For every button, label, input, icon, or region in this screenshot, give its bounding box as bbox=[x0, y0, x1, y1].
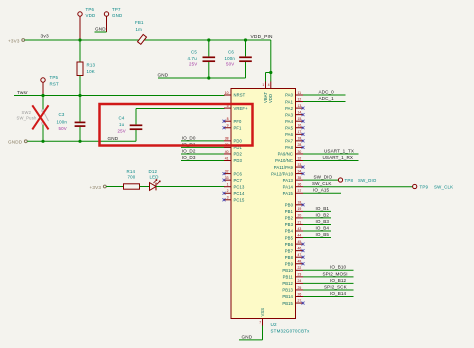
svg-text:VREF+: VREF+ bbox=[234, 106, 249, 111]
svg-text:45: 45 bbox=[298, 240, 302, 244]
pin PA10/NC (32) U2 right bbox=[275, 155, 358, 163]
svg-text:USART_1_RX: USART_1_RX bbox=[323, 155, 354, 160]
svg-text:12: 12 bbox=[298, 97, 302, 101]
pin PB14 (26) U2 right bbox=[282, 291, 353, 299]
svg-text:PB14: PB14 bbox=[282, 294, 293, 299]
svg-text:SPI2_SCK: SPI2_SCK bbox=[324, 284, 348, 289]
pin PC13 (1) U2 left bbox=[224, 183, 245, 190]
svg-text:R14: R14 bbox=[127, 169, 136, 174]
junction C5 top bbox=[207, 38, 210, 41]
svg-text:50V: 50V bbox=[59, 126, 67, 131]
svg-text:46: 46 bbox=[298, 246, 302, 250]
power GNDD (left) bbox=[8, 140, 27, 145]
svg-text:IO_B5: IO_B5 bbox=[316, 232, 330, 237]
test point TP5 bbox=[41, 75, 59, 96]
pin PB12 (24) U2 right bbox=[282, 278, 353, 286]
svg-text:SW2: SW2 bbox=[22, 110, 32, 115]
svg-text:36: 36 bbox=[298, 183, 302, 187]
junction Twsr / R13 / C3 bbox=[78, 94, 81, 97]
svg-text:+3V3: +3V3 bbox=[8, 38, 20, 43]
resistor R14 bbox=[106, 169, 139, 189]
svg-text:2: 2 bbox=[227, 189, 229, 193]
svg-text:+3V3: +3V3 bbox=[90, 185, 102, 190]
svg-text:VDD: VDD bbox=[268, 94, 273, 103]
pin PB4 (43) U2 right bbox=[285, 225, 331, 233]
mcu U2 body bbox=[231, 89, 296, 319]
svg-text:27: 27 bbox=[298, 299, 302, 303]
pin PB15 (27) U2 right bbox=[282, 299, 304, 306]
svg-text:SW_DIO: SW_DIO bbox=[358, 178, 377, 183]
pin PA0 (11) U2 right bbox=[285, 89, 345, 97]
svg-text:35: 35 bbox=[298, 176, 302, 180]
svg-text:PC15: PC15 bbox=[234, 198, 245, 203]
svg-text:GND: GND bbox=[95, 27, 106, 32]
svg-text:USART_1_TX: USART_1_TX bbox=[324, 148, 354, 153]
svg-text:PB11: PB11 bbox=[283, 275, 294, 280]
pin PC15 (3) U2 left bbox=[223, 196, 245, 203]
svg-text:SW_Push: SW_Push bbox=[17, 115, 37, 120]
svg-text:50V: 50V bbox=[226, 61, 234, 66]
svg-text:PA9/NC: PA9/NC bbox=[278, 152, 293, 157]
wire Twsr / NRST bbox=[14, 95, 225, 97]
pin PA15 (37) U2 right bbox=[283, 188, 341, 196]
pin PB3 (21) U2 right bbox=[285, 219, 331, 227]
pin PD1 (39) U2 left bbox=[181, 142, 243, 150]
svg-text:RST: RST bbox=[50, 82, 59, 87]
svg-text:PA4: PA4 bbox=[285, 119, 293, 124]
pin PA9/NC (30) U2 right bbox=[278, 148, 359, 156]
wire VSS to GND bbox=[239, 326, 263, 340]
pin PD3 (41) U2 left bbox=[181, 155, 243, 163]
pin PF0 (8) U2 left bbox=[223, 117, 243, 124]
svg-text:100n: 100n bbox=[225, 56, 236, 61]
power +3V3 (top left) bbox=[8, 38, 25, 43]
node 3v3 label bbox=[41, 34, 49, 40]
svg-text:20: 20 bbox=[298, 214, 302, 218]
svg-text:GNDD: GNDD bbox=[8, 140, 23, 145]
svg-text:18: 18 bbox=[298, 201, 302, 205]
pin NRST (10) U2 left bbox=[224, 91, 246, 98]
svg-text:NRST: NRST bbox=[234, 93, 246, 98]
wire GNDD rail bbox=[27, 140, 136, 142]
svg-text:PB4: PB4 bbox=[285, 229, 294, 234]
svg-text:D12: D12 bbox=[149, 169, 158, 174]
svg-text:PC6: PC6 bbox=[234, 171, 243, 176]
pin PB5 (44) U2 right bbox=[285, 232, 331, 240]
svg-text:U2: U2 bbox=[271, 322, 278, 327]
pin PC6 (32) U2 left bbox=[223, 169, 243, 176]
pin PB13 (25) U2 right bbox=[282, 284, 353, 292]
svg-text:GND: GND bbox=[242, 335, 253, 340]
node VDD_PIN label bbox=[251, 34, 274, 40]
pin PB6 (45) U2 right bbox=[285, 240, 305, 247]
svg-text:25V: 25V bbox=[118, 129, 126, 134]
pin PA14 (36) U2 right bbox=[283, 181, 413, 189]
pin PA13 (35) U2 right bbox=[283, 175, 339, 183]
svg-text:PC14: PC14 bbox=[234, 191, 245, 196]
svg-text:7: 7 bbox=[259, 321, 261, 325]
svg-text:PB12: PB12 bbox=[282, 281, 293, 286]
svg-text:PA10/NC: PA10/NC bbox=[275, 158, 293, 163]
svg-text:VBAT: VBAT bbox=[263, 92, 268, 103]
svg-text:C6: C6 bbox=[228, 50, 234, 55]
svg-text:PF0: PF0 bbox=[234, 119, 243, 124]
svg-text:34: 34 bbox=[298, 169, 302, 173]
svg-text:IO_D3: IO_D3 bbox=[182, 155, 196, 160]
svg-text:1u: 1u bbox=[119, 122, 125, 127]
svg-text:19: 19 bbox=[298, 207, 302, 211]
svg-text:SW_CLK: SW_CLK bbox=[312, 181, 332, 186]
junction GNDD / SW2 bbox=[41, 140, 44, 143]
svg-text:4: 4 bbox=[268, 83, 270, 87]
svg-text:30: 30 bbox=[298, 150, 302, 154]
capacitor C4 bbox=[118, 109, 225, 142]
svg-text:GND: GND bbox=[112, 13, 122, 18]
junction Twsr / TP5 bbox=[41, 94, 44, 97]
svg-text:PB5: PB5 bbox=[285, 235, 294, 240]
pin VDD (4) U2 top bbox=[268, 82, 273, 104]
pin PC7 (33) U2 left bbox=[223, 176, 243, 183]
junction C6 top bbox=[244, 38, 247, 41]
svg-text:PB6: PB6 bbox=[285, 242, 294, 247]
wire 3v3 rail bbox=[25, 39, 271, 41]
svg-text:37: 37 bbox=[298, 189, 302, 193]
highlight rectangle (red annotation) bbox=[100, 104, 253, 146]
pin PA5 (16) U2 right bbox=[285, 124, 304, 131]
svg-text:IO_B2: IO_B2 bbox=[316, 212, 330, 217]
svg-text:3v3: 3v3 bbox=[41, 34, 49, 40]
svg-text:PD2: PD2 bbox=[234, 152, 243, 157]
svg-text:26: 26 bbox=[298, 292, 302, 296]
pin PB10 (22) U2 right bbox=[282, 265, 353, 273]
svg-text:IO_B4: IO_B4 bbox=[316, 225, 330, 230]
svg-text:SW_DIO: SW_DIO bbox=[314, 175, 333, 180]
svg-text:24: 24 bbox=[298, 279, 302, 283]
junction VBAT/VDD bbox=[269, 71, 272, 74]
svg-text:C4: C4 bbox=[119, 116, 125, 121]
svg-text:FB1: FB1 bbox=[135, 20, 144, 25]
ground GND below U2 bbox=[242, 335, 253, 340]
pin PA4 (15) U2 right bbox=[285, 117, 304, 124]
capacitor C6 bbox=[225, 40, 252, 78]
svg-text:44: 44 bbox=[298, 233, 302, 237]
svg-text:PA3: PA3 bbox=[285, 112, 293, 117]
junction 3v3 / TP6 / R13 bbox=[78, 38, 81, 41]
svg-text:1m: 1m bbox=[136, 27, 143, 32]
svg-text:PD3: PD3 bbox=[234, 158, 243, 163]
svg-text:PB1: PB1 bbox=[285, 209, 294, 214]
svg-text:TP6: TP6 bbox=[86, 7, 95, 12]
svg-text:15: 15 bbox=[298, 117, 302, 121]
svg-text:14: 14 bbox=[298, 110, 302, 114]
svg-text:IO_B3: IO_B3 bbox=[316, 219, 330, 224]
svg-text:43: 43 bbox=[298, 227, 302, 231]
svg-text:STM32G070CBTx: STM32G070CBTx bbox=[271, 329, 311, 334]
svg-text:PB13: PB13 bbox=[282, 288, 293, 293]
ground GND at TP7 bbox=[95, 27, 107, 32]
svg-text:ADC_1: ADC_1 bbox=[319, 96, 335, 101]
ground GND under C5/C6 bbox=[158, 72, 246, 78]
test point TP9 SW_CLK bbox=[413, 184, 454, 189]
svg-text:3: 3 bbox=[227, 196, 229, 200]
pin PA1 (12) U2 right bbox=[285, 96, 345, 104]
svg-text:48: 48 bbox=[298, 260, 302, 264]
svg-text:IO_D0: IO_D0 bbox=[182, 135, 196, 140]
test point TP7 bbox=[104, 7, 122, 32]
svg-text:GND: GND bbox=[108, 136, 119, 141]
LED D12 bbox=[140, 169, 225, 191]
capacitor C5 bbox=[188, 40, 216, 78]
svg-text:8: 8 bbox=[227, 117, 229, 121]
svg-text:40: 40 bbox=[225, 150, 229, 154]
pin PA6 (17) U2 right bbox=[285, 130, 304, 137]
pin VBAT (1) U2 top bbox=[262, 82, 267, 104]
svg-text:PB10: PB10 bbox=[282, 268, 293, 273]
svg-text:PD0: PD0 bbox=[234, 139, 243, 144]
svg-text:PA8: PA8 bbox=[285, 145, 293, 150]
svg-text:PB2: PB2 bbox=[285, 216, 294, 221]
svg-text:PF1: PF1 bbox=[234, 125, 243, 130]
svg-text:LED: LED bbox=[150, 174, 159, 179]
node Twsr label bbox=[17, 90, 28, 96]
svg-text:47: 47 bbox=[298, 253, 302, 257]
svg-text:IO_B12: IO_B12 bbox=[330, 278, 347, 283]
svg-text:TP5: TP5 bbox=[50, 75, 59, 80]
svg-text:4.7u: 4.7u bbox=[188, 56, 198, 61]
svg-text:PB15: PB15 bbox=[282, 301, 293, 306]
svg-text:IO_A15: IO_A15 bbox=[313, 188, 330, 193]
svg-text:TP8: TP8 bbox=[345, 178, 354, 183]
resistor R13 bbox=[77, 40, 96, 96]
svg-text:GND: GND bbox=[158, 72, 169, 77]
wire VDD_PIN down to U2 bbox=[266, 40, 271, 82]
svg-text:PC13: PC13 bbox=[234, 184, 245, 189]
svg-text:PC7: PC7 bbox=[234, 178, 243, 183]
svg-text:41: 41 bbox=[225, 156, 229, 160]
svg-text:22: 22 bbox=[298, 266, 302, 270]
power +3V3 at R14 bbox=[90, 185, 107, 190]
DNP cross on SW2 bbox=[32, 105, 48, 129]
pin PA3 (14) U2 right bbox=[285, 110, 304, 117]
svg-text:PA13: PA13 bbox=[283, 178, 294, 183]
pin PB1 (19) U2 right bbox=[285, 206, 331, 214]
svg-text:25V: 25V bbox=[189, 61, 197, 66]
svg-text:33: 33 bbox=[298, 163, 302, 167]
svg-text:23: 23 bbox=[298, 273, 302, 277]
svg-text:PA11/PA9: PA11/PA9 bbox=[274, 165, 294, 170]
svg-text:16: 16 bbox=[298, 124, 302, 128]
svg-text:9: 9 bbox=[227, 124, 229, 128]
svg-text:PA15: PA15 bbox=[283, 191, 294, 196]
pin PB9 (48) U2 right bbox=[285, 260, 305, 267]
svg-text:SPI2_MOSI: SPI2_MOSI bbox=[323, 271, 348, 276]
pin PA7 (18) U2 right bbox=[285, 137, 304, 144]
junction C5 bottom bbox=[207, 76, 210, 79]
test point TP8 SW_DIO bbox=[338, 178, 377, 183]
svg-text:PA12/PA10: PA12/PA10 bbox=[271, 171, 294, 176]
svg-text:10: 10 bbox=[225, 91, 229, 95]
svg-text:100n: 100n bbox=[57, 119, 68, 124]
pin VREF+ (5) U2 left bbox=[224, 104, 248, 111]
pin PD2 (40) U2 left bbox=[181, 148, 243, 156]
pin PD0 (38) U2 left bbox=[181, 135, 243, 143]
pin PB7 (46) U2 right bbox=[285, 246, 305, 253]
svg-text:28: 28 bbox=[298, 143, 302, 147]
svg-text:PA2: PA2 bbox=[285, 106, 293, 111]
switch SW2 SW_Push (DNP, crossed out) bbox=[17, 96, 49, 142]
svg-text:IO_D2: IO_D2 bbox=[182, 148, 196, 153]
svg-text:IO_B1: IO_B1 bbox=[316, 206, 330, 211]
svg-text:1: 1 bbox=[227, 183, 229, 187]
svg-text:C3: C3 bbox=[59, 112, 65, 117]
svg-text:PB3: PB3 bbox=[285, 222, 294, 227]
svg-text:IO_B10: IO_B10 bbox=[330, 265, 347, 270]
svg-text:PA7: PA7 bbox=[285, 139, 293, 144]
svg-text:PB8: PB8 bbox=[285, 255, 294, 260]
svg-text:PA0: PA0 bbox=[285, 93, 293, 98]
svg-text:VSS: VSS bbox=[260, 308, 265, 317]
pin PB0 (18) U2 right bbox=[285, 201, 305, 208]
svg-text:PA5: PA5 bbox=[285, 125, 293, 130]
mcu U2 reference bbox=[271, 322, 311, 333]
svg-text:10K: 10K bbox=[87, 69, 95, 74]
svg-text:VDD_PIN: VDD_PIN bbox=[251, 34, 274, 40]
svg-text:TP7: TP7 bbox=[112, 7, 121, 12]
svg-text:17: 17 bbox=[298, 130, 302, 134]
svg-text:IO_B14: IO_B14 bbox=[330, 291, 347, 296]
svg-text:PB7: PB7 bbox=[285, 248, 294, 253]
pin PF1 (9) U2 left bbox=[223, 124, 243, 131]
svg-text:PB9: PB9 bbox=[285, 261, 294, 266]
pin PA11/PA9 (33) U2 right bbox=[274, 163, 305, 170]
junction GNDD / C3 bbox=[78, 140, 81, 143]
svg-text:25: 25 bbox=[298, 286, 302, 290]
ferrite bead FB1 bbox=[135, 20, 146, 44]
svg-text:SW_CLK: SW_CLK bbox=[434, 184, 453, 189]
pin PA12/PA10 (34) U2 right bbox=[271, 169, 304, 176]
capacitor C3 bbox=[57, 96, 86, 142]
svg-text:13: 13 bbox=[298, 104, 302, 108]
pin PB2 (20) U2 right bbox=[285, 212, 331, 220]
ground GND at C4 bbox=[108, 136, 119, 141]
svg-text:VDD: VDD bbox=[86, 13, 96, 18]
svg-text:21: 21 bbox=[298, 220, 302, 224]
svg-text:TP9: TP9 bbox=[420, 184, 429, 189]
svg-text:PA1: PA1 bbox=[285, 99, 293, 104]
svg-text:1: 1 bbox=[262, 83, 264, 87]
pin PA8 (28) U2 right bbox=[285, 143, 304, 150]
svg-text:18: 18 bbox=[298, 137, 302, 141]
pin PA2 (13) U2 right bbox=[285, 104, 304, 111]
svg-text:38: 38 bbox=[225, 137, 229, 141]
pin PB8 (47) U2 right bbox=[285, 253, 305, 260]
svg-text:ADC_0: ADC_0 bbox=[319, 89, 335, 94]
test point TP6 bbox=[78, 7, 96, 40]
svg-text:32: 32 bbox=[298, 156, 302, 160]
svg-text:C5: C5 bbox=[191, 50, 197, 55]
pin VSS (7) U2 bottom bbox=[259, 308, 265, 326]
svg-text:PA6: PA6 bbox=[285, 132, 293, 137]
svg-text:PA14: PA14 bbox=[283, 184, 294, 189]
svg-text:PB0: PB0 bbox=[285, 203, 294, 208]
pin PB11 (23) U2 right bbox=[283, 271, 354, 279]
svg-text:R13: R13 bbox=[87, 62, 96, 67]
pin PC14 (2) U2 left bbox=[223, 189, 245, 196]
svg-text:11: 11 bbox=[298, 91, 302, 95]
svg-text:700: 700 bbox=[128, 174, 136, 179]
